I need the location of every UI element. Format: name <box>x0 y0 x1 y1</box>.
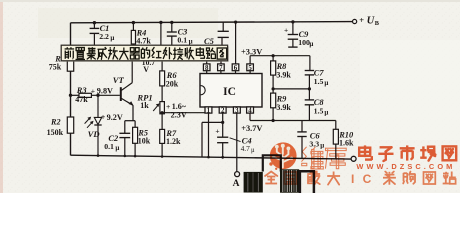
resistor R2 150k <box>67 117 73 133</box>
watermark brand outline chars <box>302 147 306 152</box>
pin 6 <box>235 71 237 74</box>
wire pin1 to ground <box>208 113 210 157</box>
svg-text:47k: 47k <box>75 95 88 104</box>
svg-text:1.5: 1.5 <box>314 77 324 86</box>
svg-text:+: + <box>215 127 219 136</box>
capacitor C9 100u <box>291 20 294 23</box>
capacitor C5 <box>222 22 224 31</box>
wire pin7 stub (C5) <box>220 61 222 64</box>
watermark logo circle <box>270 142 297 169</box>
svg-text:VD: VD <box>88 129 100 139</box>
potentiometer RP1 1k <box>160 102 165 114</box>
title box <box>63 46 229 61</box>
svg-text:V: V <box>143 65 149 74</box>
pin 4 <box>247 107 254 113</box>
pin 7 <box>220 71 222 74</box>
svg-text:100: 100 <box>298 38 310 47</box>
svg-text:2.3V: 2.3V <box>171 111 187 120</box>
capacitor C8 1.5u <box>308 89 310 100</box>
svg-text:μ: μ <box>251 147 255 154</box>
capacitor C7 1.5u <box>309 56 311 70</box>
capacitor C3 0.1u <box>170 21 173 24</box>
svg-text:7: 7 <box>219 65 223 72</box>
svg-text:R3: R3 <box>76 86 87 95</box>
svg-text:+: + <box>359 15 364 25</box>
pin 3 <box>233 107 240 113</box>
capacitor C2 0.1u <box>124 121 126 133</box>
svg-text:+3.3V: +3.3V <box>241 47 262 56</box>
pin 8 <box>206 71 208 74</box>
photodiode VD <box>97 95 99 117</box>
svg-text:I: I <box>351 172 354 186</box>
censor block 2 <box>280 169 299 192</box>
wire RP1 to IC pin1 <box>162 112 208 114</box>
svg-text:VT: VT <box>113 75 125 85</box>
wire pin4 +3.7V node <box>249 113 251 120</box>
wire pin6 to top rail <box>235 22 237 64</box>
terminal ground right <box>351 156 356 161</box>
censor staple <box>263 155 281 171</box>
svg-text:+: + <box>91 87 95 96</box>
resistor R6 20k <box>161 61 163 71</box>
resistor R9 3.9k <box>271 93 276 108</box>
svg-text:10k: 10k <box>138 137 151 146</box>
svg-text:1.5: 1.5 <box>314 106 324 115</box>
resistor R5 10k <box>134 121 136 128</box>
svg-text:0.1: 0.1 <box>177 36 187 45</box>
watermark slogan row <box>265 172 271 177</box>
resistor R10 1.6k <box>335 121 337 130</box>
svg-text:1.6k: 1.6k <box>339 139 354 148</box>
wire +3.3V node <box>250 55 310 57</box>
svg-text:μ: μ <box>320 142 324 150</box>
svg-text:4.7: 4.7 <box>241 144 251 153</box>
wire pin2 node <box>222 113 224 122</box>
node RP1 wiper <box>161 111 164 114</box>
wire ground rail <box>71 155 352 159</box>
svg-text:R2: R2 <box>50 118 61 127</box>
resistor R1 75k <box>70 45 72 61</box>
svg-text:20k: 20k <box>166 80 179 89</box>
svg-text:9.2V: 9.2V <box>107 113 123 122</box>
wire left rail <box>70 23 72 156</box>
title text pseudo-glyphs <box>65 48 75 49</box>
svg-text:6: 6 <box>234 65 238 72</box>
svg-text:μ: μ <box>189 38 193 46</box>
resistor R8 3.9k <box>272 54 275 57</box>
svg-text:C: C <box>363 172 372 186</box>
svg-text:0.1: 0.1 <box>104 142 114 151</box>
svg-text:μ: μ <box>309 40 313 48</box>
pin 5 <box>249 71 251 74</box>
svg-text:5: 5 <box>248 65 252 72</box>
wire pin3 to terminal A <box>236 113 238 172</box>
svg-text:WWW.DZSC.COM: WWW.DZSC.COM <box>356 162 453 171</box>
pin 2 <box>219 107 226 113</box>
svg-text:μ: μ <box>324 108 328 116</box>
transistor VT <box>120 87 122 101</box>
svg-text:3.9k: 3.9k <box>276 103 291 112</box>
svg-text:1k: 1k <box>140 101 149 110</box>
resistor R4 4.7k <box>159 21 162 24</box>
svg-text:4.7k: 4.7k <box>136 36 151 45</box>
svg-text:C7: C7 <box>314 68 325 77</box>
resistor R7 1.2k <box>161 114 163 130</box>
svg-text:1.2k: 1.2k <box>166 137 181 146</box>
wire pin8 stub <box>206 61 208 64</box>
wire pin5 to +3.3V rail <box>249 56 251 64</box>
svg-text:IC: IC <box>223 86 236 98</box>
wire node2 <box>273 88 309 90</box>
watermark name solid chars <box>364 145 366 157</box>
node VD tap <box>96 94 99 97</box>
node R8/R9 <box>272 87 275 90</box>
svg-text:μ: μ <box>115 144 119 152</box>
emitter node wire <box>125 120 135 122</box>
terminal A <box>235 172 240 177</box>
censor pi outline <box>300 171 314 193</box>
capacitor C1 2.2u <box>93 21 96 24</box>
svg-text:2.2: 2.2 <box>99 32 109 41</box>
svg-text:3.9k: 3.9k <box>276 71 291 80</box>
svg-text:+: + <box>284 26 288 35</box>
wire top supply rail <box>71 22 353 23</box>
capacitor C6 3.3u <box>301 121 303 132</box>
svg-text:A: A <box>233 179 240 189</box>
node base junction on left rail <box>69 94 72 97</box>
svg-text:8: 8 <box>205 65 209 72</box>
svg-text:75k: 75k <box>49 63 62 72</box>
op-amp IC <box>200 74 262 108</box>
svg-text:μ: μ <box>110 34 114 42</box>
svg-text:+: + <box>101 113 106 122</box>
terminal +UB <box>353 19 357 23</box>
resistor R3 47k <box>71 94 80 96</box>
svg-text:μ: μ <box>324 79 328 87</box>
censor block 1 <box>244 172 263 193</box>
pin 1 <box>205 107 212 113</box>
svg-text:+3.7V: +3.7V <box>241 124 262 133</box>
light arrows into VD <box>87 122 93 128</box>
svg-text:150k: 150k <box>47 128 64 137</box>
